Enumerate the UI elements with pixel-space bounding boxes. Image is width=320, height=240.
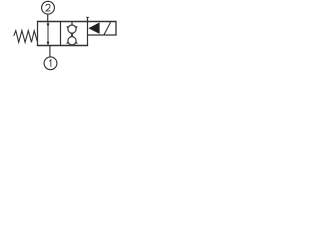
valve right border / armature interface bbox=[87, 17, 89, 46]
valve bottom border bbox=[37, 45, 88, 47]
poppet ball lower bbox=[68, 37, 76, 45]
valve envelope left border bbox=[37, 21, 39, 46]
port label 2 bbox=[46, 4, 51, 11]
solenoid triangle bbox=[88, 22, 99, 34]
port circle 1 bbox=[44, 57, 57, 70]
port circle 2 bbox=[42, 1, 55, 14]
solenoid proportional slash bbox=[104, 22, 111, 35]
wire valve to port 1 bbox=[49, 46, 51, 57]
solenoid box right border bbox=[115, 21, 117, 36]
solenoid box bottom border bbox=[87, 34, 117, 36]
spring bbox=[14, 31, 38, 43]
interface pin serif bbox=[86, 16, 89, 18]
seat X leg 1 bbox=[67, 26, 77, 44]
wire port 2 to valve bbox=[47, 14, 49, 22]
flow arrowhead lower bbox=[47, 42, 50, 46]
valve position divider bbox=[60, 22, 62, 46]
seat X leg 2 bbox=[67, 26, 77, 44]
flow arrowhead upper bbox=[47, 24, 50, 28]
valve envelope top border bbox=[37, 21, 117, 23]
port label 1 bbox=[49, 60, 51, 67]
poppet ball upper bbox=[68, 25, 76, 33]
flow path line (left position) bbox=[47, 22, 49, 45]
poppet stub from top border bbox=[71, 22, 73, 26]
